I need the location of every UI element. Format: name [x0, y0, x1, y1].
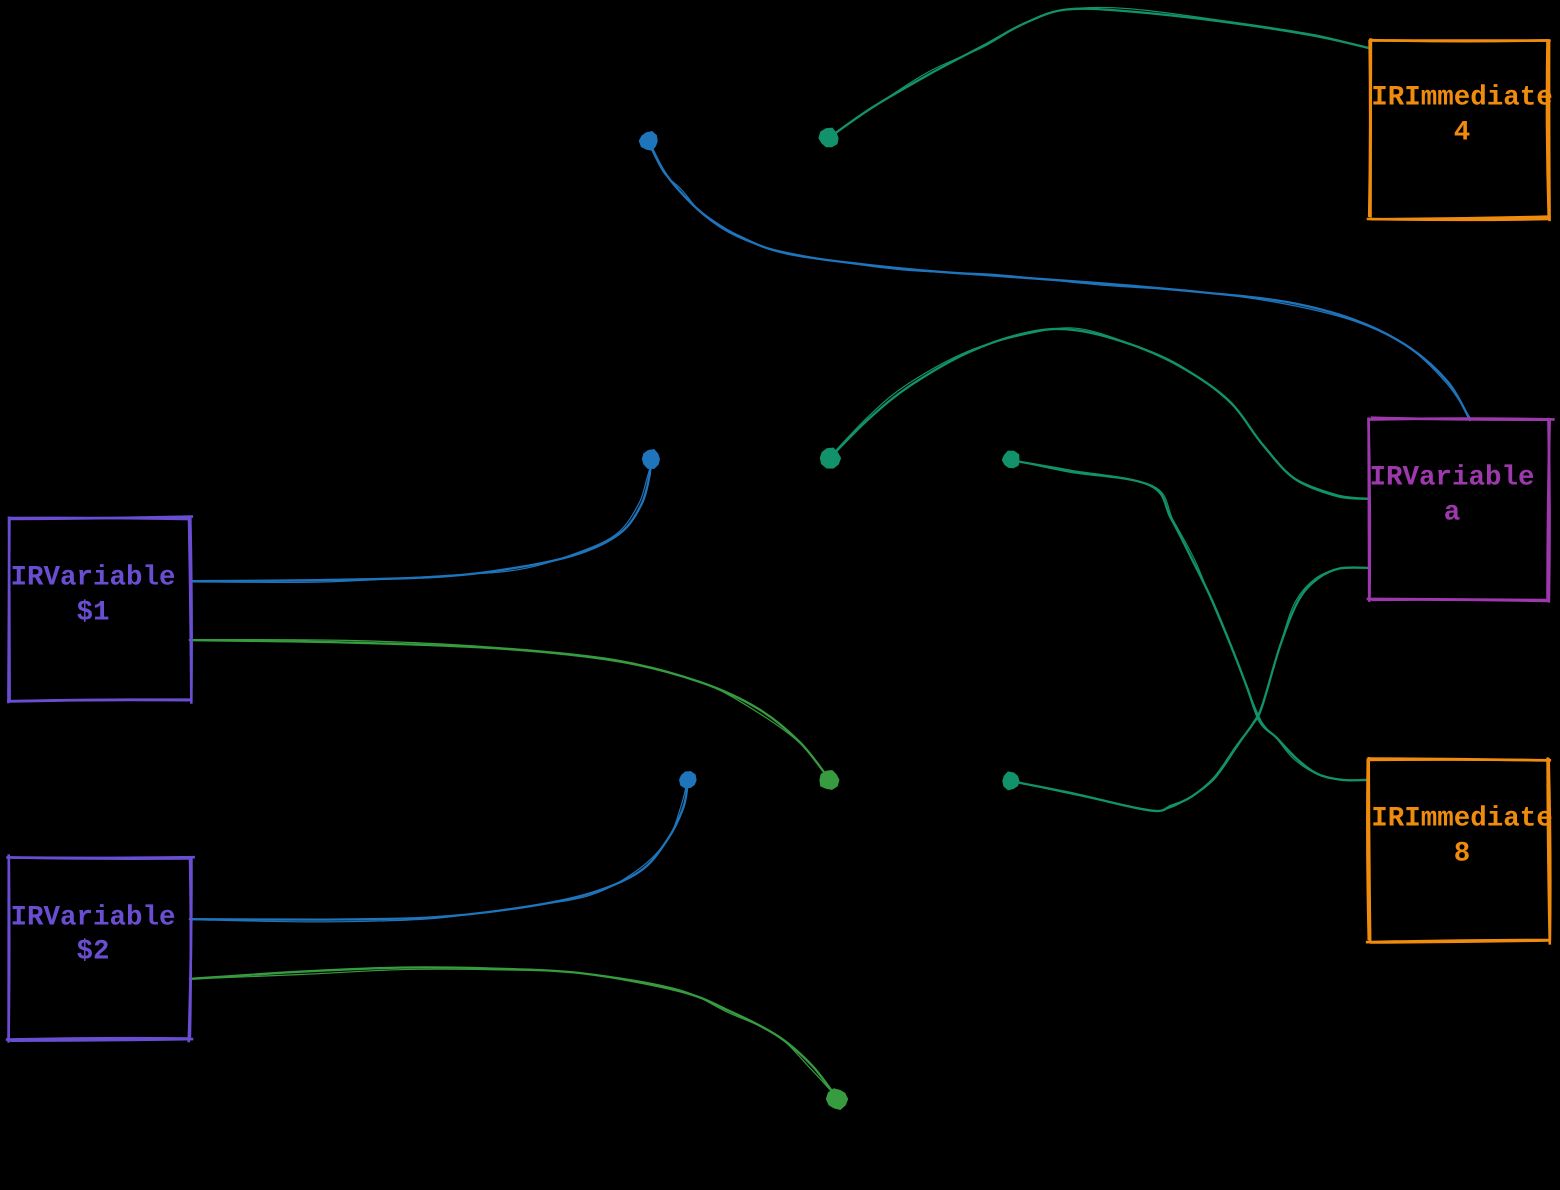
- svg-text:IRVariable: IRVariable: [10, 563, 175, 594]
- green dot (829,780): [820, 771, 838, 789]
- node IRImmediate 8: label text: [1371, 804, 1553, 870]
- svg-text:$2: $2: [76, 937, 109, 968]
- node IRImmediate 4: sketchy rectangle: [1367, 38, 1551, 221]
- sea-green dot (829,138): [820, 129, 838, 147]
- svg-text:8: 8: [1454, 839, 1471, 870]
- sea-green dot (830,458): [821, 449, 840, 468]
- edge: blue curve IRVariable $2 -> dot(688,780): [190, 783, 688, 919]
- edge: blue curve dot(649,141) -> IRVariable a (top): [649, 142, 1470, 420]
- node IRImmediate 8: sketchy rectangle: [1366, 757, 1551, 945]
- edge: green curve IRVariable $1 -> dot(829,780): [190, 640, 829, 779]
- node IRVariable a: sketchy rectangle: [1367, 418, 1555, 603]
- svg-text:IRVariable: IRVariable: [10, 903, 175, 934]
- edge: sea-green curve dot(830,458) -> IRVariable a (left): [830, 329, 1369, 499]
- edge: green curve IRVariable $2 -> dot(837,1099): [190, 967, 837, 1098]
- node IRVariable $1: sketchy rectangle: [7, 517, 193, 704]
- svg-text:IRImmediate: IRImmediate: [1371, 804, 1553, 835]
- edge: sea-green curve dot(829,138) -> IRImmediate 4: [829, 9, 1369, 138]
- edge: sea-green curve dot(1011,781) -> IRVariable a (left lower): [1011, 568, 1369, 812]
- blue dot (649,141): [640, 132, 657, 150]
- node IRVariable $1: label text: [10, 563, 175, 629]
- svg-text:$1: $1: [76, 598, 109, 629]
- green dot (837,1099): [827, 1089, 847, 1109]
- sea-green dot (1011,460): [1003, 452, 1019, 468]
- edge: sea-green curve dot(1011,460) -> IRImmediate 8: [1011, 460, 1369, 780]
- node IRVariable a: label text: [1369, 463, 1534, 529]
- node IRVariable $2: label text: [10, 903, 175, 968]
- sea-green dot (1011,781): [1003, 773, 1018, 790]
- svg-text:4: 4: [1454, 118, 1471, 149]
- blue dot (651,459): [643, 450, 659, 468]
- svg-text:IRVariable: IRVariable: [1369, 463, 1534, 494]
- blue dot (688,780): [680, 772, 696, 787]
- svg-text:IRImmediate: IRImmediate: [1371, 83, 1553, 114]
- svg-text:a: a: [1444, 498, 1461, 529]
- node IRVariable $2: sketchy rectangle: [6, 854, 195, 1042]
- edge: blue curve IRVariable $1 -> dot(651,459): [190, 461, 651, 581]
- node IRImmediate 4: label text: [1371, 83, 1553, 149]
